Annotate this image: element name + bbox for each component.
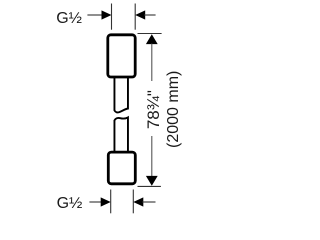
node: bottom right extension tick (132, 190, 134, 214)
arrowhead top-left pointing right (102, 10, 112, 19)
arrowhead bottom-left pointing right (101, 197, 111, 206)
wire: dim line lower segment (151, 136, 153, 177)
hose upper segment (114, 77, 128, 112)
wire: top right arrow tail (144, 14, 155, 16)
arrowhead bottom-right pointing left (133, 197, 143, 206)
svg-text:G½: G½ (57, 195, 83, 212)
wire: top leader line (87, 14, 102, 16)
node: top left extension tick (111, 4, 113, 30)
bottom fitting (hose nut) (108, 152, 135, 184)
wire: right extension line bottom (138, 185, 161, 187)
svg-text:(2000 mm): (2000 mm) (165, 71, 182, 148)
arrowhead down (length dim) (146, 176, 158, 186)
wire: dim line upper segment (151, 44, 153, 82)
hose lower segment (114, 117, 128, 152)
node: bottom left extension tick (110, 190, 112, 214)
arrowhead up (length dim) (146, 34, 158, 44)
wire: right extension line top (138, 33, 162, 35)
svg-text:78¾": 78¾" (144, 90, 163, 129)
arrowhead top-right pointing left (135, 10, 145, 19)
node: top right extension tick (134, 4, 136, 30)
svg-text:G½: G½ (56, 10, 82, 27)
top fitting (hose nut) (108, 35, 135, 77)
wire: bottom right arrow tail (142, 201, 155, 203)
wire: bottom leader line (89, 201, 101, 203)
